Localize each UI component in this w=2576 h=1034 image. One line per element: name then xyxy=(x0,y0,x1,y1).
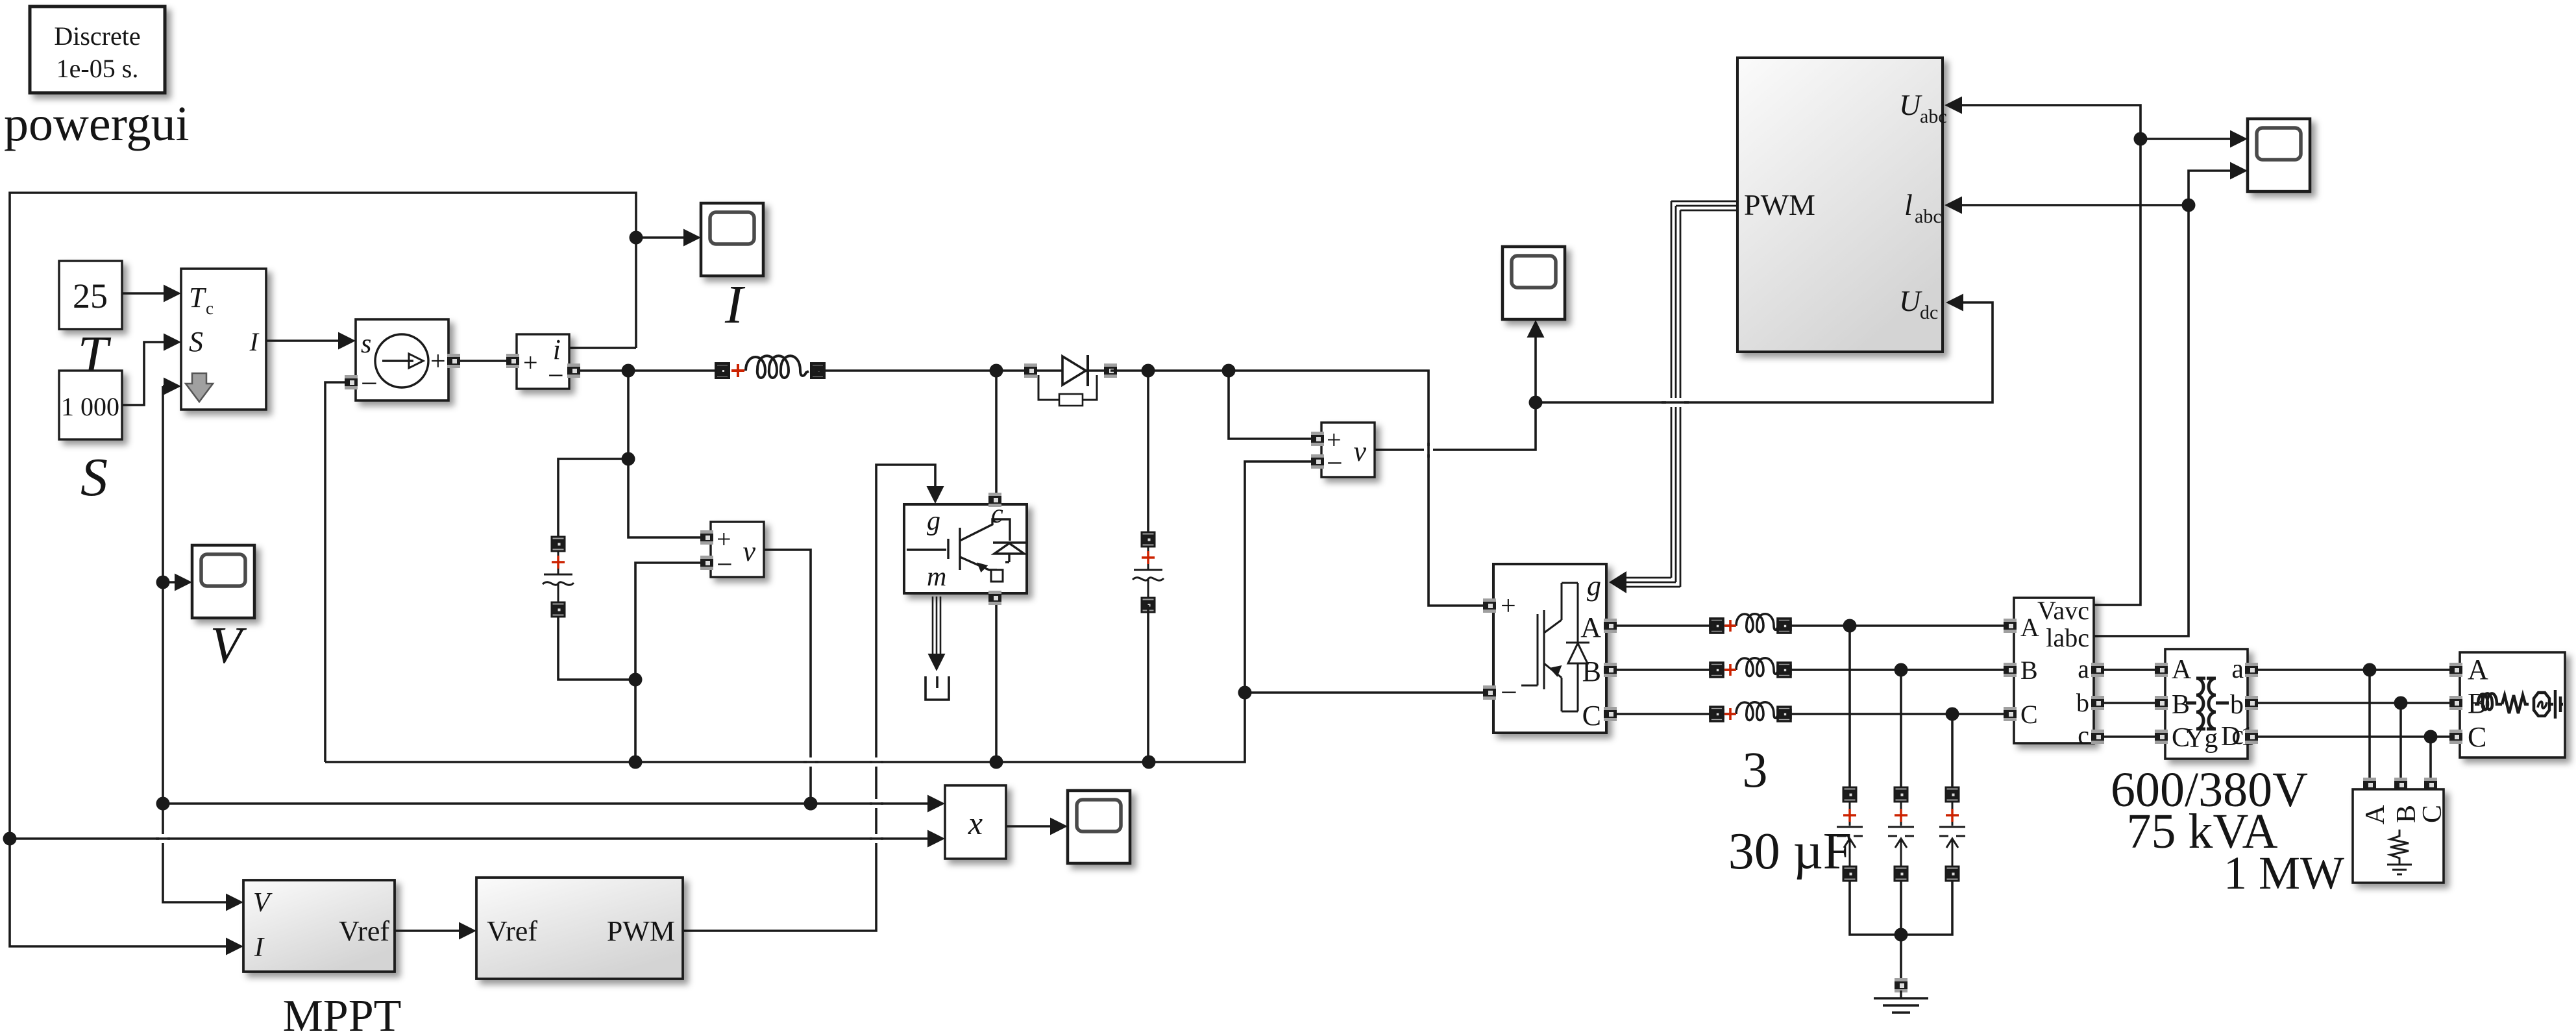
svg-text:powergui: powergui xyxy=(4,97,190,151)
svg-text:C: C xyxy=(2468,721,2486,753)
svg-text:V: V xyxy=(210,617,247,674)
svg-text:abc: abc xyxy=(1920,106,1947,127)
svg-text:c: c xyxy=(2078,720,2089,750)
svg-text:B: B xyxy=(2020,656,2038,685)
svg-text:v: v xyxy=(1353,436,1366,467)
svg-text:m: m xyxy=(927,562,946,592)
svg-text:U: U xyxy=(1899,88,1922,121)
svg-text:labc: labc xyxy=(2046,623,2089,652)
svg-text:PWM: PWM xyxy=(1744,188,1815,221)
svg-text:C: C xyxy=(2418,805,2447,823)
svg-text:MPPT: MPPT xyxy=(283,991,402,1034)
svg-text:−: − xyxy=(1327,447,1343,479)
svg-text:x: x xyxy=(968,805,983,841)
svg-text:1 MW: 1 MW xyxy=(2224,847,2344,899)
svg-text:S: S xyxy=(189,326,203,358)
svg-text:l: l xyxy=(1904,188,1913,221)
svg-text:g: g xyxy=(927,506,940,536)
svg-text:a: a xyxy=(2078,654,2089,683)
svg-text:I: I xyxy=(254,933,265,963)
svg-text:−: − xyxy=(1501,676,1517,709)
svg-text:−: − xyxy=(717,548,733,580)
svg-text:Vavc: Vavc xyxy=(2037,596,2089,625)
svg-text:+: + xyxy=(1501,591,1516,621)
svg-text:I: I xyxy=(724,275,746,335)
svg-text:b: b xyxy=(2076,688,2089,717)
svg-text:I: I xyxy=(249,327,260,356)
svg-text:a: a xyxy=(2231,654,2244,684)
svg-text:A: A xyxy=(2361,804,2390,824)
svg-text:−: − xyxy=(548,360,564,391)
svg-text:B: B xyxy=(2172,690,2190,720)
svg-text:S: S xyxy=(80,447,108,508)
svg-text:U: U xyxy=(1899,284,1922,317)
svg-text:Discrete: Discrete xyxy=(54,21,140,51)
svg-text:3: 3 xyxy=(1743,741,1768,798)
svg-text:C: C xyxy=(2020,700,2038,729)
svg-text:+: + xyxy=(430,347,446,376)
svg-text:25: 25 xyxy=(73,277,108,315)
svg-text:c: c xyxy=(206,299,214,318)
svg-text:1e-05 s.: 1e-05 s. xyxy=(56,54,139,83)
svg-text:V: V xyxy=(253,888,273,918)
svg-text:dc: dc xyxy=(1920,302,1938,323)
svg-text:C: C xyxy=(1582,700,1601,732)
svg-text:30 µF: 30 µF xyxy=(1728,823,1852,880)
svg-text:T: T xyxy=(189,282,207,314)
svg-text:A: A xyxy=(2468,654,2488,685)
svg-text:Vref: Vref xyxy=(339,915,389,947)
svg-text:b: b xyxy=(2230,690,2244,720)
svg-text:+: + xyxy=(523,348,538,377)
svg-text:Vref: Vref xyxy=(487,915,537,947)
svg-text:A: A xyxy=(2172,655,2192,685)
svg-text:s: s xyxy=(361,329,371,359)
svg-text:PWM: PWM xyxy=(607,915,675,947)
svg-text:1 000: 1 000 xyxy=(61,392,119,421)
svg-text:v: v xyxy=(742,535,755,567)
svg-text:g: g xyxy=(1587,570,1601,602)
svg-text:A: A xyxy=(2020,613,2039,642)
svg-text:abc: abc xyxy=(1915,206,1942,227)
svg-text:−: − xyxy=(361,367,378,400)
svg-text:A: A xyxy=(1580,611,1601,643)
